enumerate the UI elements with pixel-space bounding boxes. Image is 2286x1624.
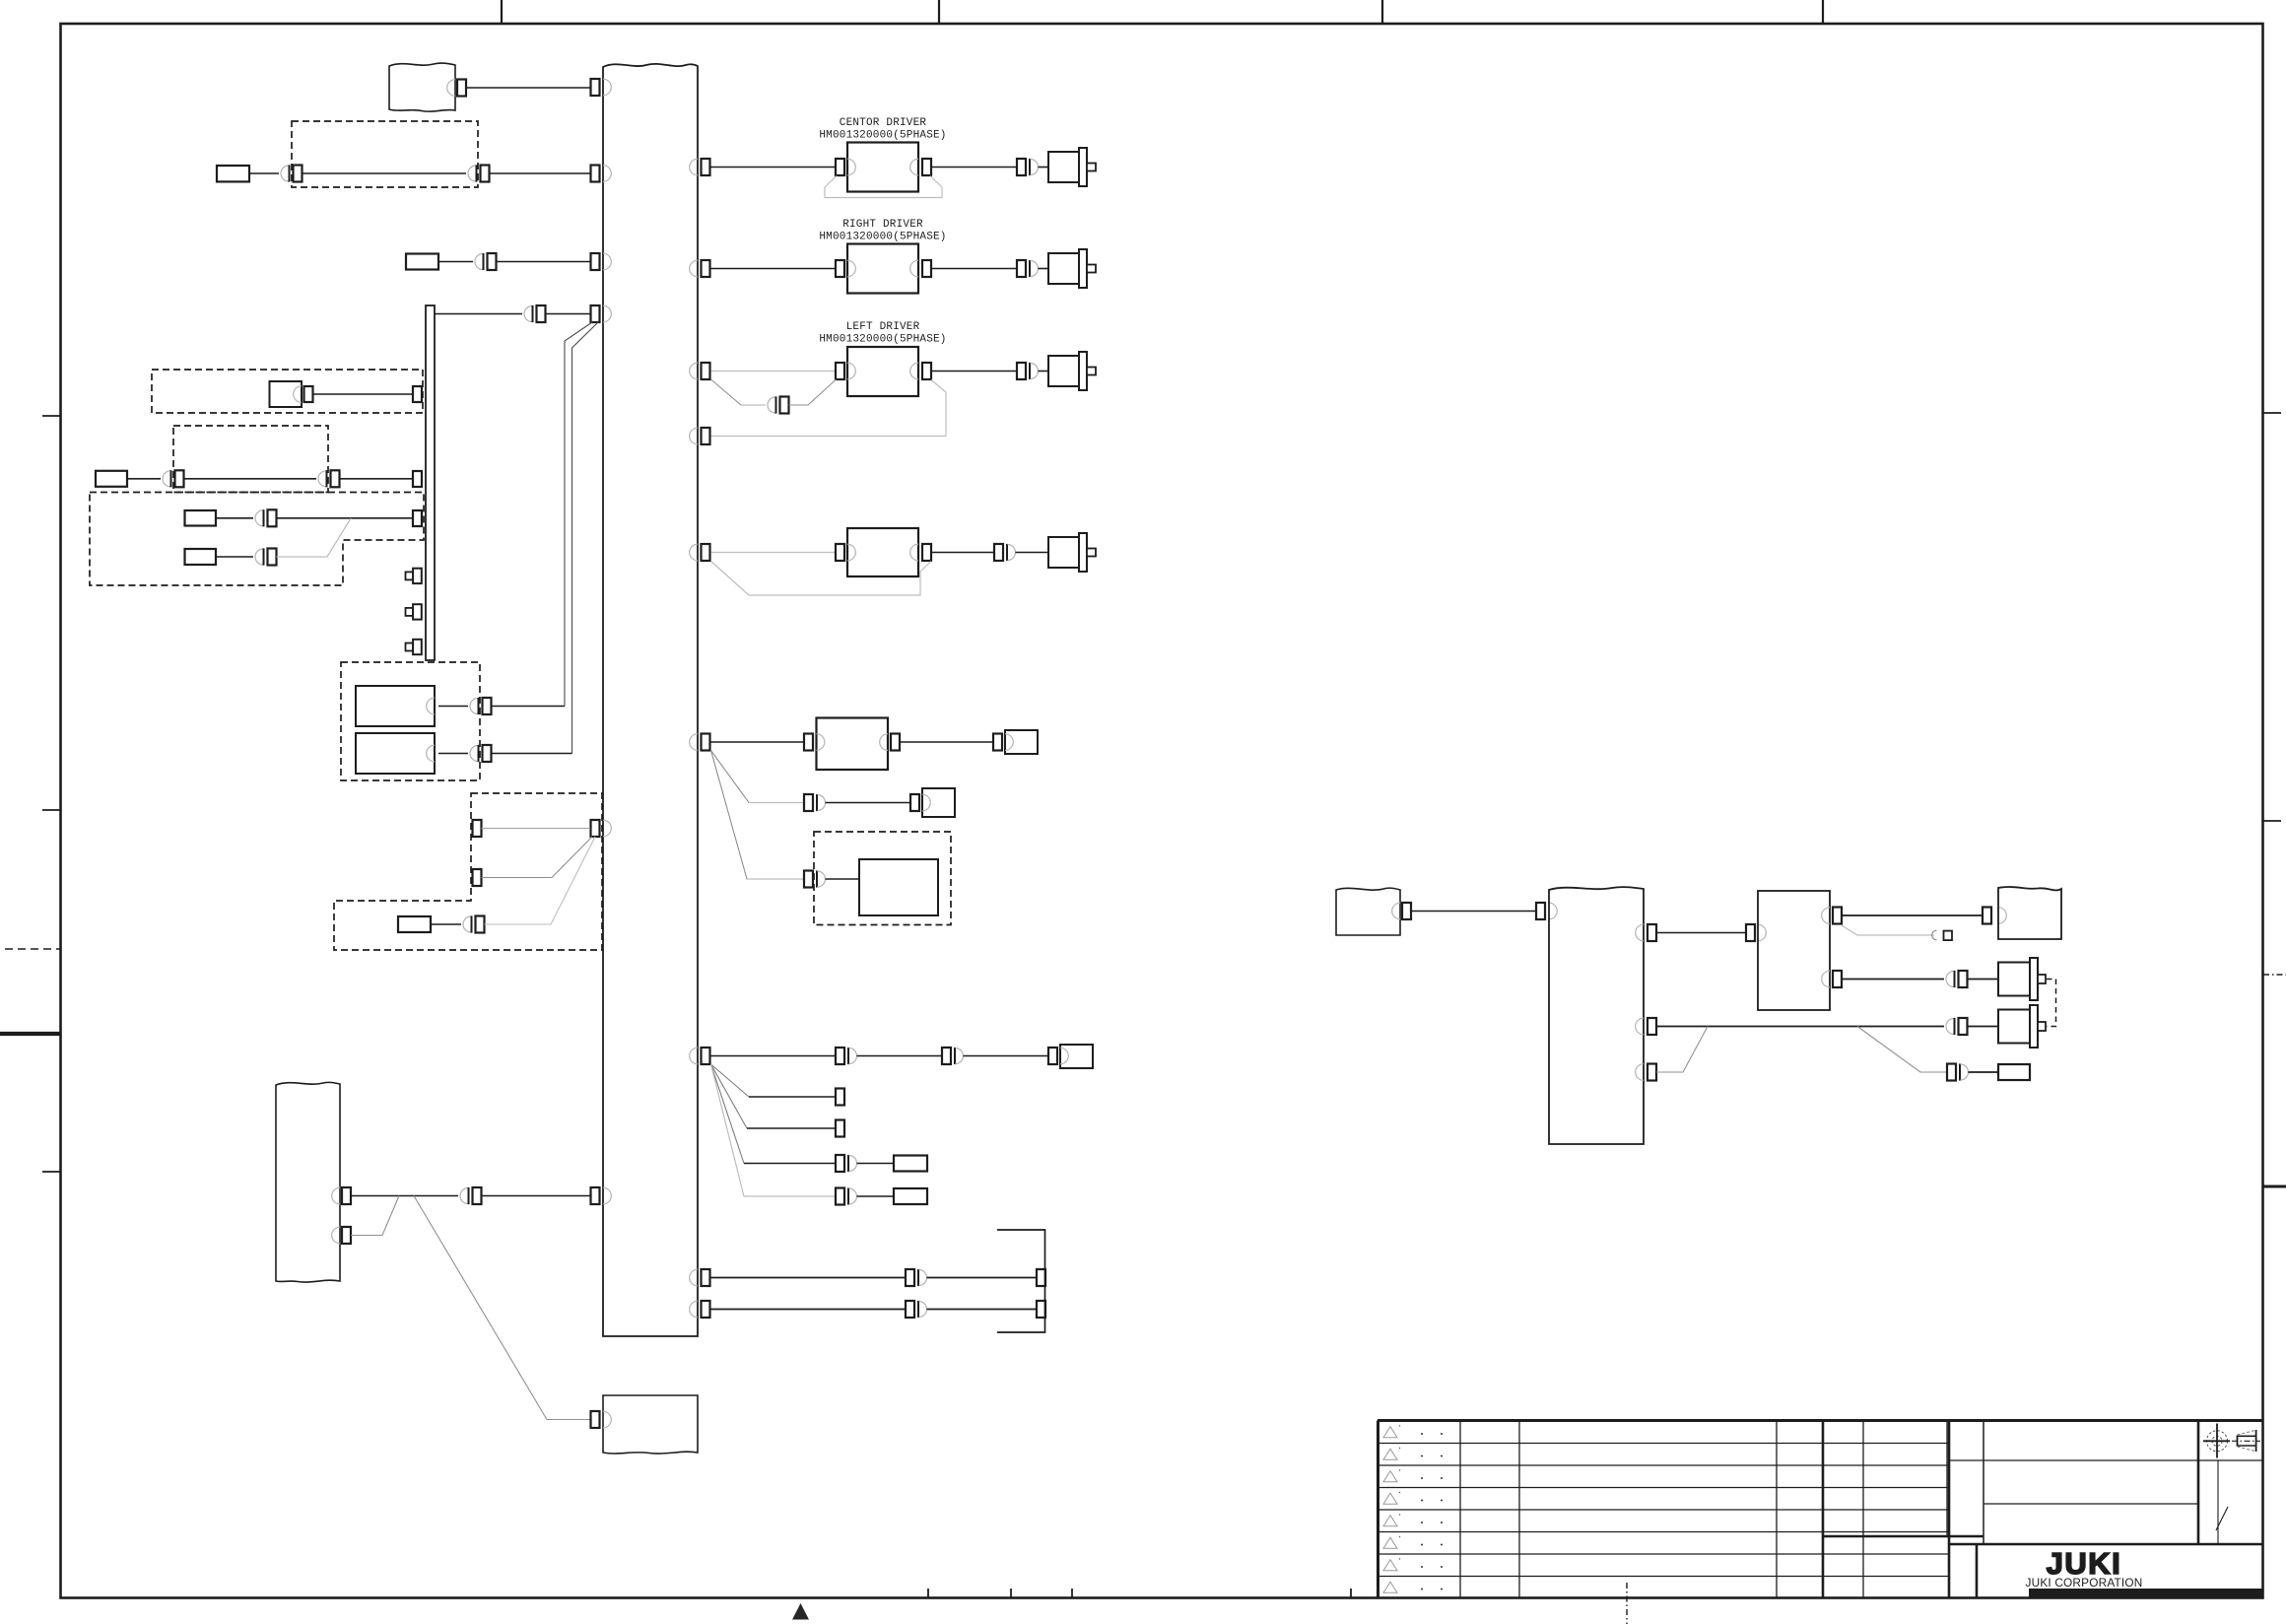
wire CN to converter	[711, 741, 805, 743]
wire pair to motor1	[1968, 979, 1999, 981]
centor stepping motor	[1048, 148, 1096, 186]
wire terminal to pair	[438, 261, 473, 263]
wire B to pair	[216, 556, 253, 558]
wire A to pair	[216, 517, 253, 519]
fan 2 body	[356, 733, 435, 774]
wire pedal1 to MAIN CN	[482, 828, 591, 830]
right edge tick y419	[2263, 412, 2281, 414]
left edge thick centre mark y1049	[0, 1032, 61, 1036]
MAIN CN (left edge) y89	[591, 79, 612, 96]
MAIN CN (right edge) y442	[690, 428, 710, 444]
earth stub symbol	[1932, 930, 1952, 940]
strip plug y584	[406, 569, 422, 583]
MAIN CN (right edge) y272	[690, 260, 710, 277]
dashed link between motor stubs	[2047, 980, 2056, 1027]
wire pair to motor2	[1968, 1026, 1999, 1028]
JUKI logo	[2047, 1546, 2122, 1581]
centor driver in connector	[836, 159, 844, 175]
marking light body	[859, 859, 938, 915]
wire pair to sensor terminal	[1969, 1071, 1999, 1073]
solenoid connector	[304, 386, 313, 402]
bypass wire to inline pair	[711, 379, 767, 405]
strip connector y486	[413, 471, 422, 487]
branch wire to row y814	[711, 751, 806, 803]
wire driver to motor pair	[931, 268, 1018, 270]
panel connector 1 (right edge)	[332, 1187, 351, 1204]
solenoid body y399	[270, 381, 303, 407]
left stepping motor	[1048, 352, 1096, 390]
wire pair to motor	[1039, 167, 1049, 169]
program unit box (torn bottom, below MAIN)	[603, 1395, 698, 1454]
sheet slash mark	[2216, 1507, 2228, 1530]
wire to MAIN CN y265	[497, 261, 591, 263]
wire SUB to relay box	[1656, 932, 1746, 934]
title block outline	[1378, 1421, 2263, 1598]
frame tab y1328	[1037, 1301, 1045, 1318]
branch wire to program unit	[414, 1196, 590, 1420]
wire fan2 to pair	[438, 753, 468, 755]
aux box (torn top)	[1998, 887, 2061, 939]
wire pedal2 joins CN y840	[482, 837, 593, 878]
solenoid dashed box y375-419	[152, 370, 423, 413]
heavy footer bar	[2029, 1589, 2263, 1598]
branch wire y1214	[711, 1064, 838, 1196]
lamp connector	[993, 734, 1002, 751]
svg-text:HM001320000(5PHASE): HM001320000(5PHASE)	[819, 334, 946, 346]
label RIGHT DRIVER	[819, 219, 946, 243]
wire terminal to pair	[431, 923, 461, 925]
motor connector pair y169	[1017, 159, 1039, 175]
wire fan1 to drop A	[492, 706, 566, 708]
MAIN CN (right edge) y1071	[690, 1048, 710, 1064]
branch wire y1145	[711, 1064, 837, 1128]
clamp motor 2	[1998, 1005, 2046, 1048]
motor connector pair y376	[1017, 363, 1039, 379]
inline connector pair y411	[768, 396, 789, 413]
wire driver to motor pair	[931, 371, 1018, 372]
wire to terminal y1214	[857, 1195, 895, 1197]
connector pair y486 a	[163, 470, 184, 487]
left driver out connector	[922, 363, 931, 379]
wire solenoid to strip	[313, 393, 414, 395]
wire SUB to motor2 pair	[1656, 1026, 1944, 1028]
MAIN CN (left edge) y840	[591, 820, 612, 837]
branch to sensor row y1088	[1857, 1027, 1948, 1073]
frame tab y1296	[1037, 1269, 1045, 1286]
centor driver box	[847, 143, 918, 192]
wire terminal to pair	[127, 478, 161, 480]
drop wire A from CN y318	[565, 322, 592, 707]
label CENTOR DRIVER	[819, 117, 946, 142]
MAIN CN (right edge) y560	[690, 544, 710, 561]
right edge dash-dot mark y989	[2263, 974, 2286, 976]
stub connector y1145	[836, 1120, 844, 1137]
revision triangle row 8	[1383, 1582, 1443, 1592]
pedal connector 2	[473, 869, 482, 886]
wire pair to MAIN CN y1213	[482, 1195, 591, 1197]
fan 1 body	[356, 686, 435, 726]
switch terminal B y565	[185, 549, 217, 565]
pedal unit dashed outline (L shape)	[334, 793, 602, 950]
panel connector 2 (right edge)	[332, 1227, 351, 1244]
MAIN CN (right edge) y169	[690, 159, 710, 175]
sensor connector pair y1088	[1947, 1063, 1969, 1080]
wire strip top to pair y318	[435, 313, 522, 315]
branch wire y1180	[711, 1064, 838, 1164]
SUB CN (right edge) y946	[1636, 924, 1656, 941]
sensor terminal y486	[96, 471, 127, 487]
left edge tick y1189	[42, 1171, 60, 1173]
wire to MAIN CN y318	[546, 313, 591, 315]
top edge centre tick 1	[501, 0, 503, 24]
top edge centre tick 4	[1822, 0, 1824, 24]
AC input box (torn top)	[1336, 888, 1400, 935]
lamp2 connector	[910, 794, 919, 811]
wire AC input to sub board	[1411, 911, 1536, 913]
revision triangle row 4	[1383, 1492, 1443, 1504]
SUB CN (right edge) y1041	[1636, 1018, 1656, 1035]
aux box connector	[1983, 908, 2006, 924]
switch group dashed outline (L shape)	[90, 493, 424, 586]
wire inside harness	[303, 172, 467, 174]
wire fan2 to drop B	[492, 753, 572, 755]
SUB board box (torn top)	[1549, 887, 1644, 1144]
MAIN CN (right edge) y376	[690, 363, 710, 379]
MAIN board (central bus box, torn top)	[603, 64, 698, 1336]
shield return under centor driver	[825, 176, 942, 198]
wire pair to motor	[1039, 268, 1049, 270]
wire panel conn2 joins y1213	[351, 1196, 399, 1236]
pedal connector 1	[473, 820, 482, 837]
connector pair y265	[475, 253, 497, 270]
svg-text:RIGHT DRIVER: RIGHT DRIVER	[842, 219, 923, 231]
frame ground bracket	[997, 1230, 1045, 1332]
bottom edge tick 2	[1010, 1589, 1012, 1597]
junction strip (thin bus bar)	[426, 305, 435, 660]
svg-text:JUKI CORPORATION: JUKI CORPORATION	[2026, 1576, 2143, 1590]
left edge tick y422	[42, 415, 60, 417]
wire y1328	[711, 1309, 908, 1311]
revision triangle row 3	[1383, 1469, 1443, 1481]
MAIN CN (left edge) y318	[591, 305, 612, 322]
wire A to strip	[277, 517, 414, 519]
bypass wire pair to driver	[789, 379, 837, 405]
sensor terminal	[1998, 1064, 2030, 1080]
wire pair to frame tab y1328	[927, 1309, 1038, 1311]
label LEFT DRIVER	[819, 321, 946, 346]
relay CN (right edge) y993	[1822, 971, 1842, 987]
wire SUB y1088 joins motor2 wire	[1656, 1027, 1708, 1073]
connector pair y892	[804, 870, 826, 887]
connector pair y318	[524, 305, 546, 322]
svg-text:HM001320000(5PHASE): HM001320000(5PHASE)	[819, 130, 946, 142]
wire CN to left driver	[711, 371, 837, 372]
program unit CN (left edge)	[591, 1411, 612, 1428]
SUB CN (right edge) y1088	[1636, 1064, 1656, 1081]
branch wire y1113	[711, 1064, 837, 1097]
wire to pair2 y1071	[857, 1055, 944, 1057]
right driver out connector	[922, 260, 931, 277]
branch wire to row y892	[711, 751, 806, 880]
MAIN CN (right edge) y1296	[690, 1269, 710, 1286]
row y265 : switch terminal	[406, 254, 438, 270]
relay box	[1758, 891, 1830, 1010]
head lamp connector	[1048, 1048, 1057, 1064]
connector pair B y565	[255, 548, 277, 565]
wire power unit to MAIN CN	[466, 87, 590, 89]
motor connector pair y272	[1017, 260, 1039, 277]
wire pair to lamp2	[826, 802, 911, 804]
wire driver to motor pair	[931, 167, 1018, 169]
JUKI CORPORATION text	[2026, 1576, 2143, 1590]
motor1 connector pair	[1946, 971, 1968, 987]
wire driver to motor pair	[931, 552, 995, 554]
left edge dashed mark y963	[5, 948, 60, 950]
wire CN to right driver	[711, 268, 837, 270]
stub connector y1113	[836, 1089, 844, 1106]
wire CN to pair1 y1071	[711, 1055, 838, 1057]
revision triangle row 6	[1383, 1536, 1443, 1548]
wire panel to pair y1213	[351, 1195, 458, 1197]
top edge centre tick 2	[938, 0, 940, 24]
wire CN to spare driver	[711, 552, 837, 554]
svg-text:HM001320000(5PHASE): HM001320000(5PHASE)	[819, 232, 946, 243]
right block rows	[1823, 1460, 2263, 1544]
connector pair fan2	[470, 745, 492, 762]
right driver box	[847, 244, 918, 294]
spare driver out connector	[922, 544, 931, 561]
wire pair to marking light	[826, 878, 860, 880]
strip connector y526	[413, 510, 422, 526]
harness out connector pair	[468, 165, 490, 181]
wire terminal to relay connector	[249, 172, 279, 174]
drop wire B from CN y318	[572, 322, 599, 754]
connector pair y814	[804, 794, 826, 811]
wire to head lamp	[964, 1055, 1049, 1057]
left driver box	[847, 347, 918, 396]
crosshair extension line	[2217, 1460, 2219, 1544]
connector on power unit right edge	[447, 80, 466, 97]
converter in connector	[804, 734, 813, 751]
sensor dashed box y432-497	[173, 426, 328, 493]
wire pair to motor	[1039, 371, 1049, 372]
relay CN (right edge) y929	[1822, 908, 1842, 924]
shield return under spare driver	[711, 562, 932, 596]
converter out connector	[891, 734, 900, 751]
operation panel box (torn top and bottom, lower-left)	[276, 1082, 340, 1282]
relay connector pair	[281, 165, 303, 181]
left edge tick y822	[42, 809, 60, 811]
wire y1296	[711, 1277, 908, 1279]
connector pair y1328	[906, 1301, 927, 1318]
row y176 : sensor terminal	[217, 166, 249, 181]
MAIN CN (right edge) y1328	[690, 1301, 710, 1318]
wire to MAIN CN y176	[490, 172, 591, 174]
right stepping motor	[1048, 249, 1096, 288]
bottom edge registration triangle	[792, 1603, 809, 1620]
wire pair to motor	[1016, 552, 1049, 554]
strip plug y656	[406, 640, 422, 654]
MAIN CN (left edge) y1213	[591, 1187, 612, 1204]
bottom edge tick 3	[1071, 1589, 1073, 1597]
wire relay to motor1 pair	[1842, 979, 1944, 981]
harness dashed box (row y176)	[292, 121, 478, 187]
revision triangle row 7	[1383, 1558, 1443, 1570]
wire inside sensor box	[184, 478, 317, 480]
bottom edge tick 4	[1350, 1589, 1352, 1597]
terminal y1214	[894, 1188, 927, 1204]
strip plug y621	[406, 604, 422, 619]
terminal y1180	[894, 1156, 927, 1172]
wire to terminal y1180	[857, 1163, 895, 1165]
connector pair y1180	[836, 1155, 857, 1172]
connector pair y1214	[836, 1187, 857, 1204]
connector pair y1071 a	[836, 1048, 857, 1064]
wire CN to centor driver	[711, 167, 837, 169]
third angle projection symbol (cone view)	[2232, 1430, 2260, 1452]
earth stub wire	[1842, 925, 1934, 935]
wire pair to strip	[340, 478, 414, 480]
bottom edge tick 1	[927, 1589, 929, 1597]
spare driver in connector	[836, 544, 844, 561]
fan unit dashed box y672-792	[341, 662, 480, 780]
revision table rows	[1378, 1444, 1949, 1577]
lamp unit y753	[1005, 730, 1038, 754]
switch terminal A y526	[185, 510, 217, 526]
bottom edge dash-dot fold mark	[1626, 1583, 1628, 1624]
pedal terminal y938	[398, 916, 431, 932]
lamp unit y814	[922, 788, 955, 817]
connector pair y1071 b	[942, 1048, 964, 1064]
wire B joins wire A	[277, 518, 352, 557]
connector pair y938	[463, 915, 485, 932]
connector pair y1213	[460, 1187, 482, 1204]
AC input connector	[1392, 903, 1411, 919]
revision triangle row 2	[1383, 1448, 1443, 1459]
head lamp unit	[1060, 1045, 1093, 1068]
wire pair to frame tab y1296	[927, 1277, 1038, 1279]
power unit box (torn top and bottom, top-left)	[389, 63, 455, 111]
left driver in connector	[836, 363, 844, 379]
MAIN CN (left edge) y176	[591, 166, 612, 182]
shield return wire y442	[711, 380, 947, 437]
third angle projection symbol (crosshair)	[2203, 1424, 2230, 1458]
svg-text:CENTOR DRIVER: CENTOR DRIVER	[840, 117, 927, 129]
converter box y753	[817, 718, 889, 771]
revision triangle row 1	[1383, 1425, 1443, 1437]
right edge thick mark y1204	[2263, 1185, 2286, 1188]
sub board CN (left edge)	[1536, 903, 1557, 919]
connector pair A y526	[255, 509, 277, 526]
right edge tick y833	[2263, 820, 2281, 822]
right driver in connector	[836, 260, 844, 277]
centor driver out connector	[922, 159, 931, 175]
connector pair y1296	[906, 1269, 927, 1286]
revision triangle row 5	[1383, 1514, 1443, 1525]
spare stepping motor	[1048, 533, 1096, 572]
top edge centre tick 3	[1381, 0, 1383, 24]
MAIN CN (right edge) y753	[690, 734, 710, 751]
motor2 connector pair	[1946, 1018, 1968, 1035]
strip connector y399	[413, 386, 422, 402]
relay box in connector	[1746, 924, 1766, 941]
MAIN CN (left edge) y265	[591, 253, 612, 270]
svg-text:LEFT DRIVER: LEFT DRIVER	[846, 321, 920, 333]
wire relay to aux box	[1842, 914, 1983, 916]
wire pair joins CN y840	[485, 837, 596, 924]
spare driver box	[847, 528, 918, 576]
connector pair fan1	[470, 698, 492, 714]
connector pair y486 b	[318, 470, 340, 487]
clamp motor 1	[1998, 958, 2046, 1000]
wire fan1 to pair	[438, 706, 468, 708]
revision table columns	[1460, 1421, 1983, 1597]
marking light dashed box	[814, 832, 951, 925]
motor connector pair y560	[994, 544, 1016, 561]
wire converter to lamp	[900, 741, 993, 743]
